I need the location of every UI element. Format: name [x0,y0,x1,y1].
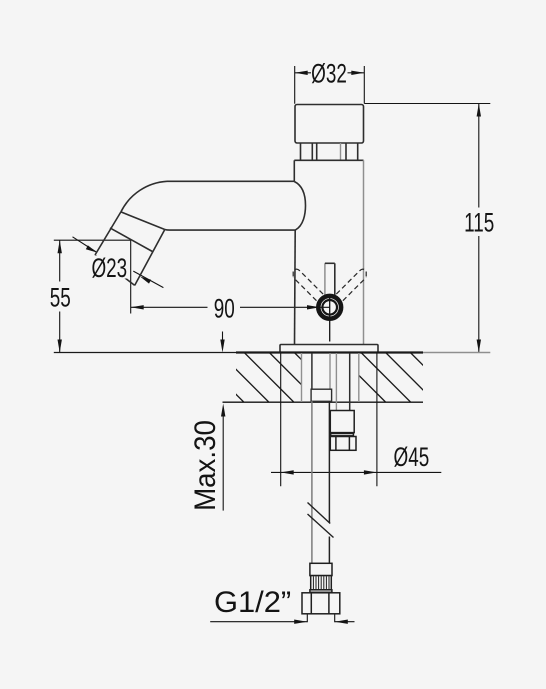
neck vertical lines [301,143,358,160]
arrowheads [58,71,481,624]
shank locknut [330,437,356,451]
pipe break line 1 [308,503,331,524]
threaded rod right wall [349,353,351,411]
dim 115 extension line top [364,103,490,105]
dim Ø45 line [271,471,441,473]
body spout junction arc [294,182,305,230]
spout lower wall [135,230,165,286]
knob outer thick ring [318,296,341,319]
dim Ø45 extension lines [281,354,377,487]
body right edge [363,160,365,344]
phantom arm right [336,269,366,301]
spout bottom line [170,229,297,231]
handle stem right line [334,263,336,297]
supply pipe left wall [311,401,313,563]
dim 90 extension line [130,240,132,313]
locknut facet lines [336,437,350,451]
connector collar [310,563,332,575]
arrow G1/2 right [335,620,348,624]
arrow G1/2 left [294,620,307,624]
spout top line [167,180,294,182]
spout elbow arc [121,181,167,212]
label Ø23 background [90,256,129,279]
connector thread lines [313,576,329,589]
tube left wall in hole [311,353,313,389]
shank mounting assembly [330,411,356,451]
phantom arm left [293,269,323,301]
counter underside line [223,401,424,403]
dim Max.30 lower line [222,411,224,511]
handle stem left line [324,263,326,296]
body left edge lower [294,230,297,345]
counter top surface line gray part [423,352,490,354]
threaded rod left wall [335,353,337,411]
svg-text:G1/2”: G1/2” [214,586,291,619]
supply pipe right wall lower [328,537,330,564]
spout end face [95,255,135,285]
dim Ø23 leader lower [133,271,163,288]
arrow 90 right at knob [307,305,320,309]
arrow Max.30 top [220,340,224,353]
supply pipe right wall upper [328,401,330,523]
svg-text:90: 90 [214,293,235,323]
dim 90 line [131,306,330,308]
arrow Ø32 right [351,71,364,75]
dim G1/2 lines [210,621,354,623]
tube right wall in hole [329,353,331,389]
dim Ø32 line [295,72,365,74]
connector nut facets [311,593,329,614]
hole edge right [358,353,360,402]
handle knob [318,295,341,342]
dim Max.30 upper arrow line [222,332,224,346]
counter top surface line [54,352,236,354]
arrow Max.30 bottom [221,404,225,417]
dim 115 line [478,104,480,353]
arrow Ø32 left [295,71,308,75]
shank washer [331,434,354,436]
arrow 55 top [58,240,62,253]
spout lower corner arc [165,229,170,232]
svg-text:55: 55 [50,282,71,312]
supply tube in hole [311,353,350,411]
arrow 90 left [131,305,144,309]
shank block [330,411,354,433]
arrow Ø45 left [281,470,294,474]
spout upper wall [95,212,121,255]
dim Ø32 extension lines [295,66,365,104]
hatch left region [195,353,344,402]
neck gray line [340,143,342,160]
cap top [295,105,364,144]
hole edge left [301,353,303,402]
bottom connector [302,563,340,614]
svg-text:115: 115 [464,207,494,237]
svg-text:Ø32: Ø32 [311,58,347,88]
spout rim band line B2 [110,228,152,252]
tube bottom fitting [311,389,332,401]
phantom cross handle (dashed) [293,269,366,301]
arrow 55 bottom [58,340,62,353]
arrow 115 top [477,104,481,117]
pipe break line 2 [308,514,334,538]
svg-text:Ø23: Ø23 [91,253,127,283]
handle stem top cap [325,262,335,264]
body top edge [294,159,363,161]
body left edge upper [293,160,295,181]
arrow Ø23 lower [140,277,151,284]
arrow 115 bottom [477,340,481,353]
hatch right region [337,353,436,402]
flange base plate [280,345,378,353]
svg-text:Ø45: Ø45 [394,442,430,472]
arrow Ø45 right [364,470,377,474]
dim 55 extension line [54,239,131,241]
arrow Ø23 upper [86,245,97,252]
dim Ø23 leader upper [73,237,98,253]
dim 55 line [59,240,61,352]
knob centre vertical line [329,295,331,342]
svg-text:Max.30: Max.30 [189,420,222,511]
connector washer [310,590,332,593]
counter top surface line thick part [236,351,423,353]
knob inner ring [322,300,337,315]
connector nut G1/2 [302,593,340,614]
connector thread body [311,576,332,590]
dim G1/2 extension ticks [307,615,334,623]
spout rim band line B1 [121,212,165,230]
